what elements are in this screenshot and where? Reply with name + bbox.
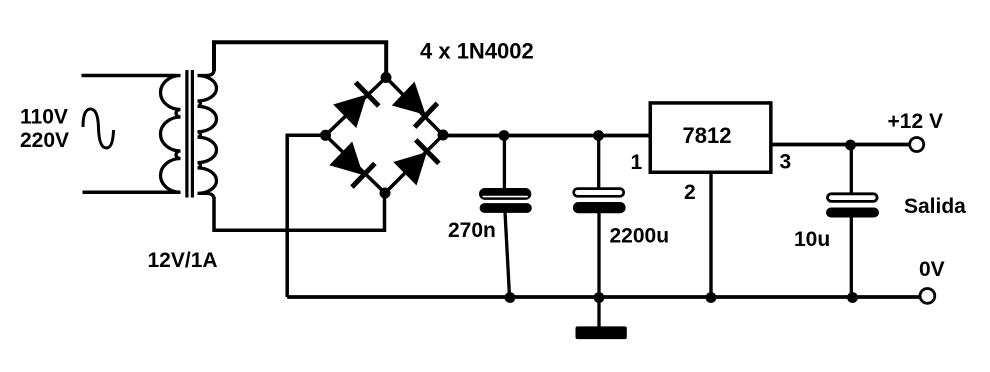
transformer T1 secondary winding (198, 70, 217, 199)
wire secondary top to bridge top node (214, 42, 386, 77)
diode D3 (left node to bottom node) (329, 142, 376, 189)
svg-text:220V: 220V (20, 129, 69, 152)
wire bottom rail (287, 295, 919, 299)
wire C3 bottom lead (850, 217, 853, 298)
svg-text:3: 3 (780, 151, 792, 174)
wire secondary bottom to bridge bottom node (214, 194, 385, 230)
wire C2 top lead (597, 136, 600, 190)
capacitor C1 270n (479, 188, 532, 213)
svg-text:1: 1 (631, 151, 643, 174)
terminal +12V (910, 138, 924, 152)
diode D2 (top node to right node) (392, 82, 439, 129)
svg-text:0V: 0V (919, 258, 945, 281)
node pin2 rail junction (706, 292, 717, 303)
svg-text:270n: 270n (448, 219, 496, 242)
svg-text:Salida: Salida (904, 195, 966, 218)
wire primary top (82, 74, 178, 78)
capacitor C3 10u (826, 194, 879, 218)
capacitor C2 2200u (573, 189, 626, 214)
transformer T1 primary winding (161, 76, 181, 193)
svg-text:110V: 110V (20, 106, 68, 129)
node output junction (845, 140, 856, 151)
svg-text:2: 2 (684, 181, 696, 204)
svg-text:4 x 1N4002: 4 x 1N4002 (420, 39, 534, 64)
wire primary bottom (83, 191, 178, 195)
node C1 top junction (499, 130, 510, 141)
terminal 0V (920, 289, 935, 304)
wire C1 top lead (503, 136, 506, 190)
svg-text:7812: 7812 (683, 123, 732, 148)
ground (576, 326, 627, 339)
svg-text:+12 V: +12 V (888, 110, 943, 133)
AC source sine symbol (83, 109, 114, 148)
diode D1 (left node to top node) (333, 81, 380, 128)
node C1 bottom junction (505, 292, 516, 303)
node bridge left (320, 130, 331, 141)
node bridge top (381, 72, 392, 83)
wire bridge right node to regulator input (443, 134, 650, 138)
wire bridge edges (326, 78, 444, 194)
wire C1 bottom lead (505, 212, 510, 297)
node bridge bottom (380, 188, 391, 199)
op-amp U1 regulator 7812 box (650, 103, 771, 172)
svg-text:12V/1A: 12V/1A (148, 249, 218, 272)
wire bridge left node to left rail (287, 135, 326, 297)
svg-text:10u: 10u (794, 228, 830, 251)
svg-text:2200u: 2200u (610, 225, 670, 248)
wire regulator pin 2 to ground rail (709, 174, 712, 297)
wire C2 bottom lead and ground lead (597, 213, 600, 328)
node C2 top junction (593, 130, 604, 141)
diode D4 (bottom node to right node) (393, 138, 440, 185)
node C2 bottom junction (594, 292, 605, 303)
node C3 bottom junction (847, 292, 858, 303)
transformer core (187, 70, 193, 198)
wire C3 top lead (850, 145, 853, 194)
node bridge right (438, 130, 449, 141)
wire regulator output (773, 143, 909, 147)
